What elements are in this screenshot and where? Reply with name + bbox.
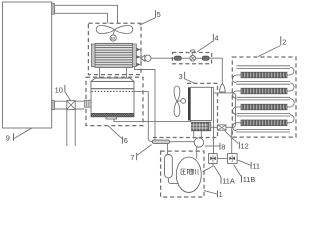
svg-text:9: 9	[6, 134, 10, 143]
wire: muffler to accumulator	[167, 143, 169, 154]
label 11A	[220, 177, 222, 184]
svg-text:7: 7	[130, 153, 134, 162]
label 4	[212, 34, 214, 41]
end-user unit box 9	[3, 2, 52, 128]
fan F3 (vertical propeller)	[174, 86, 180, 101]
label 7	[130, 153, 134, 162]
label 11B	[241, 175, 243, 182]
filter drier FD1	[174, 56, 181, 60]
wire	[196, 57, 203, 59]
fan motor M3	[177, 100, 181, 102]
shut-off valve 10 (box with X)	[67, 101, 75, 110]
wire: tank right outlet to muffler	[134, 92, 152, 142]
water tank T1 band	[91, 81, 134, 88]
svg-text:1: 1	[219, 190, 223, 199]
wire	[226, 126, 232, 128]
svg-text:11B: 11B	[243, 175, 256, 184]
solenoid valve 11B	[228, 154, 238, 164]
label 12	[238, 142, 240, 149]
wire: accumulator to compressor	[168, 178, 178, 184]
connector stub top of unit 9	[52, 4, 55, 15]
wire: coil to tank right pipe	[126, 67, 128, 78]
dashed enclosure 6 (water tank unit)	[86, 77, 143, 125]
dashed enclosure 3 (indoor fan-coil unit)	[152, 83, 217, 137]
wire: make-up water drop pipe A	[66, 109, 68, 146]
label 3	[179, 72, 183, 81]
wire: branch down to valve 11B	[231, 127, 233, 153]
wire: compressor discharge to separator	[196, 147, 198, 159]
svg-text:6: 6	[124, 136, 128, 145]
svg-text:11A: 11A	[222, 176, 235, 185]
wire: indoor coil outlet to valve 12	[211, 126, 218, 128]
label 2	[280, 36, 282, 45]
wire: upper water pipe to fan box	[55, 5, 118, 23]
tank bottom fitting	[106, 117, 117, 119]
wire: coil HX5 bottom outlet down to muffler	[135, 67, 156, 141]
label 8	[219, 143, 221, 150]
wire: coil block to separator stubs	[193, 131, 195, 139]
svg-text:8: 8	[221, 142, 225, 151]
water tank level dotted line	[92, 90, 134, 92]
wire: lower water pipe to fan box	[55, 13, 108, 23]
label 9	[6, 134, 10, 143]
coil right U-bends	[287, 67, 294, 123]
label 1	[216, 190, 218, 197]
fan motor M1	[113, 30, 114, 35]
oil separator S1 (circle)	[194, 138, 203, 147]
indoor heat exchanger shell	[190, 87, 211, 120]
coil left U-bends	[233, 75, 241, 131]
indoor coil block (finned)	[192, 122, 209, 131]
suction muffler 7 (pill)	[152, 140, 169, 143]
water tank T1 lid	[91, 78, 134, 81]
distributor bell D1	[220, 84, 226, 92]
outdoor coil finned rows	[241, 72, 287, 78]
compressor CP1	[176, 157, 201, 192]
wire: make-up water drop pipe B	[74, 109, 76, 146]
label 6	[122, 137, 124, 144]
wire: tank bottom to indoor coil	[114, 119, 192, 122]
svg-text:4: 4	[215, 34, 219, 43]
solenoid valve 11A	[209, 154, 218, 164]
label 10	[55, 85, 63, 94]
wire: supply water line 9 to tank	[55, 100, 85, 102]
indoor duct wall (thick)	[188, 87, 190, 120]
label 5	[140, 18, 156, 25]
svg-text:11: 11	[252, 161, 260, 170]
wire: coil to tank left pipe	[99, 67, 101, 78]
svg-text:10: 10	[55, 85, 63, 94]
svg-text:3: 3	[179, 72, 183, 81]
wire: indoor HX top outlet with step	[212, 88, 214, 154]
accumulator A1	[165, 155, 173, 178]
wire: link between 11A and 11B	[217, 158, 227, 160]
dashed enclosure 2 (outdoor coil)	[232, 57, 296, 137]
wire: pipe under distributor to coil 2 header	[214, 93, 236, 127]
heating element hatched band	[91, 113, 133, 116]
wire: muffler to oil separator	[170, 141, 195, 143]
fan F1 (horizontal propeller)	[96, 26, 114, 34]
dashed enclosure 4 (valve station)	[172, 53, 211, 64]
svg-text:M: M	[111, 36, 115, 41]
wire	[181, 57, 190, 59]
wire: 11A to compressor	[203, 163, 213, 171]
condenser coil HX5 (finned, in box 5)	[95, 43, 133, 67]
svg-text:12: 12	[241, 141, 249, 150]
connector stub right-lower of unit 9	[52, 101, 55, 110]
outdoor coil serpentine tubes	[237, 66, 291, 132]
refrigerant header triangles on coil HX5	[137, 48, 141, 66]
water tank T1 body	[91, 89, 134, 117]
wire: to distributor bell	[209, 58, 222, 83]
filter drier FD2	[202, 56, 209, 60]
svg-text:2: 2	[282, 37, 286, 46]
label 11	[250, 162, 252, 169]
wire: return water line 9 to tank	[55, 108, 85, 110]
dashed enclosure 1 (compressor unit)	[161, 151, 204, 197]
tank left inlet flange	[85, 100, 92, 107]
expansion valve V4 (circle with X and handle)	[190, 55, 196, 61]
wire: liquid line to valve station 4	[151, 57, 174, 59]
dashed enclosure 5 (heat pump condensing unit)	[88, 23, 141, 74]
solenoid valve 12 (box with X)	[218, 125, 227, 130]
distributor cone and bulb	[141, 55, 145, 61]
svg-text:5: 5	[157, 10, 161, 19]
